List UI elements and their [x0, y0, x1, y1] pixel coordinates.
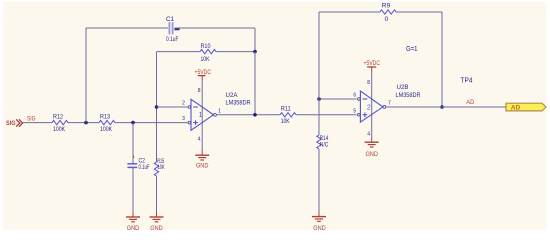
wire feedback vertical (R10 left down to R15) — [156, 52, 158, 162]
svg-text:+5VDC: +5VDC — [364, 60, 381, 67]
svg-text:4: 4 — [367, 132, 370, 138]
svg-text:6: 6 — [353, 93, 356, 99]
svg-text:8: 8 — [198, 88, 201, 94]
svg-text:0.1uF: 0.1uF — [166, 37, 179, 43]
svg-text:5: 5 — [353, 108, 356, 114]
svg-text:AD: AD — [466, 99, 474, 106]
svg-text:100K: 100K — [100, 126, 113, 133]
wire right vertical C1 to R10 — [254, 28, 256, 52]
wire U2A output to R11 — [216, 114, 280, 116]
svg-text:R14: R14 — [320, 136, 329, 142]
junction node R13/C2 — [131, 121, 135, 125]
svg-text:100K: 100K — [53, 126, 66, 133]
ground below C2 — [126, 212, 140, 232]
resistor R12 — [52, 114, 68, 133]
wire R14 top vertical — [318, 99, 320, 135]
wire R14 bottom lead — [318, 149, 320, 212]
junction node feedback/pin2 — [155, 105, 159, 109]
svg-text:R10: R10 — [201, 43, 211, 50]
port SIG — [6, 119, 23, 127]
svg-text:N/C: N/C — [320, 142, 329, 148]
svg-text:SIG: SIG — [27, 115, 36, 122]
junction node R12/R13/C1 — [84, 121, 88, 125]
port AD — [506, 103, 546, 111]
svg-text:G=1: G=1 — [406, 46, 418, 53]
resistor R15 — [154, 159, 164, 176]
wire R10 right — [216, 51, 255, 53]
svg-text:8: 8 — [367, 80, 370, 86]
svg-text:TP4: TP4 — [461, 77, 473, 84]
svg-text:3: 3 — [182, 116, 185, 122]
wire R9 left vertical — [318, 12, 320, 99]
ground below U2A — [195, 150, 209, 169]
svg-text:10K: 10K — [201, 56, 211, 63]
op-amp U2B — [353, 84, 420, 122]
svg-text:GND: GND — [127, 225, 140, 232]
svg-text:7: 7 — [388, 100, 391, 106]
wire U2B output to port AD — [386, 106, 506, 108]
svg-text:1: 1 — [199, 112, 203, 119]
svg-text:LM358DR: LM358DR — [226, 100, 251, 107]
wire R9 top right — [396, 11, 442, 13]
svg-text:GND: GND — [196, 162, 209, 169]
svg-text:C2: C2 — [139, 158, 146, 164]
junction node R9/output — [440, 105, 444, 109]
svg-text:1: 1 — [218, 108, 221, 114]
wire U2B pin 8 to pin 4 vertical — [371, 72, 373, 138]
svg-text:2: 2 — [367, 105, 371, 112]
resistor R11 — [280, 106, 296, 125]
svg-text:2: 2 — [182, 101, 185, 107]
svg-text:U2B: U2B — [397, 84, 409, 91]
wire SIG port to R12 — [22, 122, 52, 124]
ground below R14 — [312, 212, 326, 233]
svg-text:R13: R13 — [100, 114, 110, 121]
wire R13 to op-amp pin 3 — [115, 122, 188, 124]
resistor R10 — [200, 43, 216, 63]
power +5VDC for U2A — [195, 69, 212, 80]
svg-text:C1: C1 — [166, 16, 174, 23]
power +5VDC for U2B — [364, 60, 381, 72]
wire pin 2 — [157, 106, 189, 108]
svg-text:R12: R12 — [53, 114, 63, 121]
svg-text:LM358DR: LM358DR — [396, 92, 421, 99]
wire R9 right vertical — [441, 12, 443, 107]
svg-text:SIG: SIG — [6, 120, 16, 127]
wire C2 top lead — [132, 123, 134, 164]
resistor R9 — [380, 2, 396, 23]
resistor R14 — [317, 135, 329, 149]
capacitor C1 — [166, 16, 180, 43]
wire R15 bottom lead — [156, 176, 158, 212]
svg-text:10K: 10K — [158, 165, 165, 171]
ground below R15 — [150, 212, 164, 232]
op-amp U2A — [182, 92, 251, 130]
wire R10 left — [157, 51, 201, 53]
svg-text:R11: R11 — [281, 106, 291, 113]
svg-text:+5VDC: +5VDC — [195, 69, 212, 76]
svg-text:0.1uF: 0.1uF — [139, 165, 150, 171]
svg-text:U2A: U2A — [226, 92, 239, 99]
svg-text:GND: GND — [150, 225, 163, 232]
svg-text:GND: GND — [365, 151, 378, 158]
wire R9 top left — [319, 11, 380, 13]
wire C1 top left — [86, 27, 168, 29]
svg-text:4: 4 — [198, 136, 201, 142]
wire R12 to R13 — [68, 122, 99, 124]
wire R11 to U2B pin 5 — [296, 114, 357, 116]
svg-text:AD: AD — [511, 104, 521, 111]
svg-text:0: 0 — [385, 16, 389, 23]
wire C1 top right — [175, 27, 256, 29]
wire U2A pin 8 to pin 4 vertical — [201, 80, 203, 150]
svg-text:10K: 10K — [281, 118, 291, 125]
capacitor C2 — [127, 156, 149, 171]
svg-text:R9: R9 — [382, 2, 391, 9]
resistor R13 — [99, 114, 115, 133]
svg-text:GND: GND — [313, 225, 326, 232]
wire C2 bottom lead — [132, 168, 134, 212]
wire vertical output up to R10 — [254, 52, 256, 115]
wire U2B pin 6 — [319, 98, 357, 100]
junction node output/feedback — [253, 113, 257, 117]
ground below U2B — [365, 137, 379, 158]
junction node pin6/R9/R14 — [317, 97, 321, 101]
wire C1 left vertical — [85, 28, 87, 123]
junction node R10/C1 right — [253, 50, 257, 54]
svg-text:R15: R15 — [157, 159, 164, 165]
